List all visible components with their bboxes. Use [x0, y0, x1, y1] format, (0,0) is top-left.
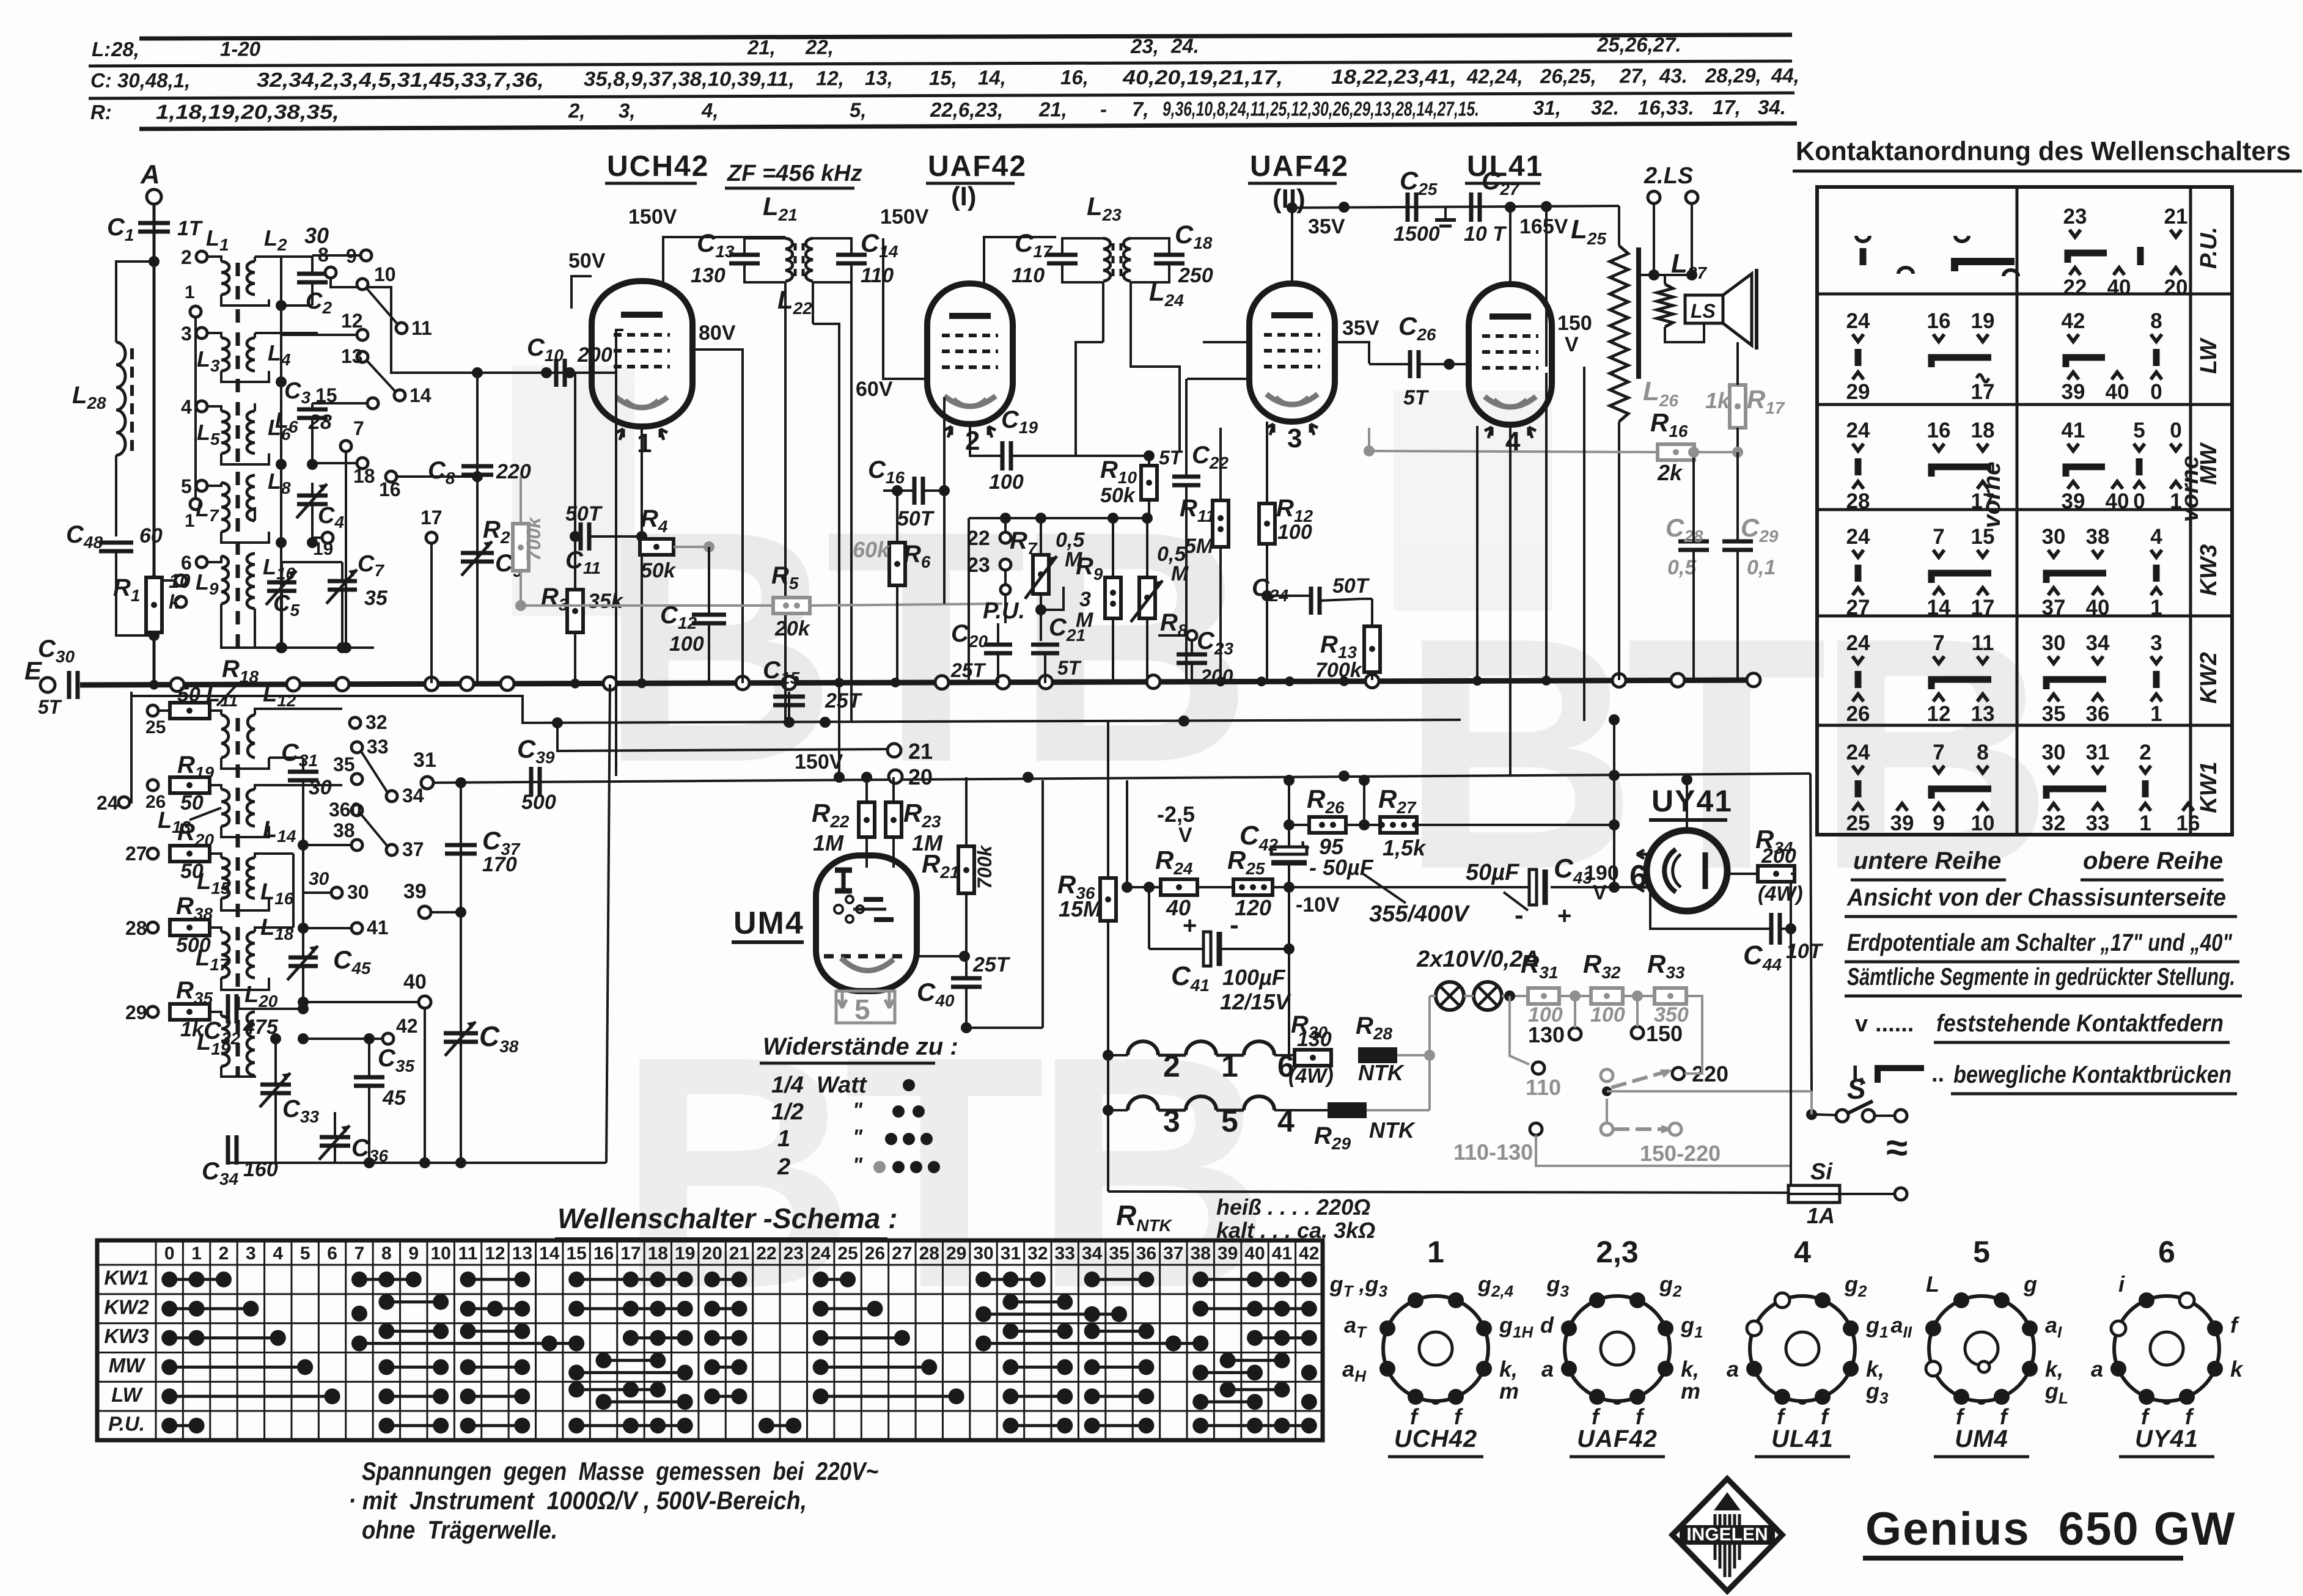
svg-text:11: 11	[458, 1243, 478, 1264]
wire 30	[303, 891, 331, 894]
capacitor C22	[1172, 477, 1200, 485]
resistor R12	[1259, 503, 1275, 544]
wire R17	[1736, 342, 1739, 385]
svg-text:24: 24	[1846, 631, 1870, 655]
svg-text:42: 42	[396, 1015, 418, 1037]
svg-text:17: 17	[1971, 489, 1995, 513]
wellenschalter P.U. contacts 11-13	[460, 1418, 531, 1433]
IF1 core	[794, 243, 797, 276]
wire C37 column	[460, 783, 462, 1163]
resistor R10	[1141, 466, 1157, 500]
wire C36	[334, 1112, 336, 1137]
svg-text:7: 7	[354, 1243, 365, 1264]
svg-text:Spannungen gegen Masse geme: Spannungen gegen Masse gemessen bei 220V…	[362, 1457, 878, 1485]
selector lever down	[1614, 1127, 1666, 1131]
terminal 23	[1000, 559, 1011, 570]
wire L28 to C48	[115, 455, 117, 536]
wire 1a-1b	[194, 317, 197, 499]
resistor R29 NTK	[1328, 1102, 1367, 1118]
svg-text:10T: 10T	[1786, 940, 1824, 963]
svg-text:+: +	[1557, 902, 1571, 929]
heater chain row2	[1128, 1096, 1158, 1110]
wire R36	[1107, 721, 1109, 878]
lamp 1	[1436, 982, 1464, 1010]
coil L18	[247, 932, 255, 978]
capacitor C35	[354, 1077, 384, 1086]
wellenschalter KW3 contacts 7-15	[351, 1336, 584, 1352]
svg-text:35,8,9,37,38,10,39,11,: 35,8,9,37,38,10,39,11,	[584, 68, 795, 90]
capacitor C11	[581, 522, 589, 551]
svg-text:C: 30,48,1,: C: 30,48,1,	[90, 69, 190, 92]
coil L1	[221, 262, 229, 295]
terminal 1b	[190, 499, 201, 510]
coil L15	[221, 858, 229, 898]
resistor R27	[1379, 817, 1418, 833]
svg-text:2: 2	[2139, 741, 2151, 764]
terminal E	[40, 678, 55, 692]
svg-text:39: 39	[1890, 811, 1914, 835]
wire uy41 top	[1686, 780, 1688, 830]
wellenschalter LW contacts 31-33	[1002, 1388, 1073, 1404]
svg-text:700k: 700k	[1315, 659, 1363, 682]
svg-text:KW3: KW3	[2196, 544, 2222, 596]
wellenschalter KW3 contacts 24-27	[813, 1330, 910, 1346]
svg-text:35: 35	[1109, 1243, 1129, 1264]
svg-text:44,: 44,	[1771, 64, 1799, 87]
wellenschalter MW contacts 8-10	[378, 1359, 449, 1375]
svg-text:33: 33	[1055, 1243, 1075, 1264]
coil L16	[247, 858, 255, 898]
svg-text:41: 41	[1272, 1243, 1292, 1264]
svg-text:28,29,: 28,29,	[1705, 64, 1761, 87]
resistor R20	[170, 846, 210, 862]
terminal 3	[196, 328, 207, 339]
svg-text:k,: k,	[2045, 1356, 2063, 1382]
capacitor C23	[1177, 654, 1207, 663]
wire x2109 down	[1288, 887, 1290, 1055]
terminal 31	[421, 777, 433, 789]
svg-text:28: 28	[1846, 489, 1870, 513]
svg-text:19: 19	[1971, 309, 1995, 333]
resistor R13	[1364, 626, 1380, 672]
tube UM4	[816, 855, 917, 991]
capacitor C15	[773, 697, 805, 705]
svg-text:ZF =456 kHz: ZF =456 kHz	[727, 161, 862, 186]
svg-text:39: 39	[2062, 489, 2085, 513]
svg-text:UCH42: UCH42	[607, 150, 709, 183]
svg-text:Genius 650 GW: Genius 650 GW	[1865, 1503, 2236, 1555]
wellenschalter KW3 contacts 40-42	[1247, 1330, 1317, 1346]
svg-text:29: 29	[1846, 380, 1870, 404]
svg-text:14: 14	[539, 1243, 560, 1264]
wire 10-11	[367, 288, 397, 324]
wire uaf1 frame	[883, 238, 927, 379]
wellenschalter LW contacts 34-36	[1084, 1388, 1155, 1404]
svg-text:50T: 50T	[565, 502, 603, 525]
coil L6	[247, 411, 255, 453]
svg-text:UAF42: UAF42	[1250, 150, 1349, 183]
terminal 17	[426, 532, 437, 543]
terminal 19	[322, 532, 333, 543]
wellenschalter MW contacts 39-41	[1220, 1352, 1290, 1368]
wire R26 R27	[1289, 824, 1309, 826]
svg-text:10: 10	[374, 263, 396, 285]
wire um4 eb	[966, 1027, 1043, 1029]
top table rule 1	[139, 35, 1792, 38]
svg-text:17: 17	[421, 507, 443, 529]
contact KW3 left	[1846, 525, 1870, 620]
svg-text:10 T: 10 T	[1464, 222, 1507, 246]
speaker LS	[1685, 269, 1757, 350]
pointer 355	[1363, 874, 1406, 903]
wire R9	[1112, 518, 1114, 577]
wire bottom coil rail	[228, 1162, 606, 1164]
contact KW2 left	[1846, 631, 1870, 726]
svg-text:ohne Trägerwelle.: ohne Trägerwelle.	[362, 1515, 557, 1544]
wire C33	[274, 1039, 277, 1085]
svg-text:NTK: NTK	[1358, 1060, 1405, 1085]
terminal 2.LS a	[1648, 191, 1660, 203]
wire x941 down	[574, 373, 576, 536]
wire 22 23	[1004, 524, 1007, 532]
INGELEN logo diamond	[1672, 1479, 1782, 1591]
wellenschalter MW contacts 38-40	[1192, 1364, 1263, 1380]
E bus wire	[80, 680, 1759, 685]
terminal 2	[196, 251, 207, 262]
wire 8 down	[331, 278, 391, 342]
svg-text:1-20: 1-20	[220, 37, 261, 60]
wire C26	[1369, 363, 1409, 365]
svg-text:0,1: 0,1	[1747, 556, 1776, 579]
svg-text:33: 33	[367, 736, 389, 758]
svg-text:18: 18	[648, 1243, 668, 1264]
svg-text:-: -	[1515, 900, 1524, 930]
svg-text:150: 150	[1646, 1021, 1683, 1046]
heater chain row1	[1128, 1041, 1158, 1055]
svg-text:150V: 150V	[628, 205, 677, 229]
svg-text:31,: 31,	[1533, 97, 1561, 119]
capacitor C38 variable	[444, 1022, 478, 1056]
wellenschalter KW3 contacts 8-10	[378, 1323, 449, 1339]
svg-text:16: 16	[379, 478, 401, 500]
wire uch down1	[641, 426, 643, 536]
resistor R22	[859, 802, 875, 837]
svg-text:A: A	[140, 159, 160, 189]
capacitor C16	[914, 477, 923, 505]
wire x1844	[1126, 780, 1128, 887]
svg-text:16: 16	[1927, 309, 1951, 333]
UY41 arrows	[1637, 850, 1650, 858]
wellenschalter KW2 contacts 8-10	[378, 1294, 449, 1310]
svg-text:2: 2	[965, 426, 980, 456]
svg-text:40: 40	[2086, 596, 2110, 620]
terminal 36	[351, 805, 362, 816]
svg-text:27: 27	[892, 1243, 912, 1264]
svg-text:9: 9	[1933, 811, 1944, 835]
R18 pointer	[217, 683, 238, 706]
terminal pair x296	[175, 575, 186, 586]
wire c10-tube	[566, 372, 616, 374]
wire rail to switch	[1810, 774, 1812, 1091]
wire C34	[237, 1138, 238, 1150]
svg-text:32.: 32.	[1591, 97, 1619, 119]
svg-text:3: 3	[246, 1243, 256, 1264]
resistor R31	[1528, 988, 1559, 1004]
svg-text:k,: k,	[1681, 1356, 1699, 1382]
svg-text:4: 4	[2150, 525, 2162, 549]
wellenschalter KW2 contacts 0-3	[161, 1301, 259, 1317]
svg-text:42: 42	[2062, 309, 2085, 333]
svg-text:......: ......	[1875, 1011, 1914, 1037]
wellenschalter LW contacts 15-18	[568, 1382, 666, 1397]
wire C28	[1692, 452, 1695, 541]
svg-text:21,: 21,	[747, 36, 776, 59]
svg-text:50k: 50k	[1100, 484, 1136, 507]
svg-text:15: 15	[1971, 525, 1995, 549]
svg-text:38: 38	[2086, 525, 2110, 549]
svg-text:4: 4	[181, 396, 192, 418]
svg-text:Kontaktanordnung des Wellensch: Kontaktanordnung des Wellenschalters	[1796, 136, 2291, 166]
svg-text:36: 36	[2086, 702, 2110, 726]
svg-text:30: 30	[309, 869, 329, 889]
svg-text:UL41: UL41	[1771, 1426, 1834, 1452]
E bus junctions	[171, 673, 1760, 692]
wire L15 top	[210, 854, 221, 858]
svg-text:30: 30	[2042, 525, 2066, 549]
lamp 2	[1474, 982, 1502, 1010]
svg-text:": "	[853, 1099, 863, 1122]
contact MW left	[1846, 419, 1870, 513]
resistor R33	[1655, 988, 1686, 1004]
resistor R26	[1309, 817, 1346, 833]
svg-text:26: 26	[1846, 702, 1870, 726]
wire C45	[302, 813, 304, 957]
wire A down	[153, 204, 156, 683]
svg-text:35: 35	[333, 753, 355, 775]
svg-text:28,: 28,	[111, 38, 139, 60]
wire bottom rail	[1108, 1192, 1788, 1193]
wire R16	[1369, 451, 1658, 452]
terminal 37	[386, 844, 397, 855]
svg-text:g: g	[2023, 1272, 2037, 1297]
terminal 33	[351, 742, 362, 753]
terminal 16	[386, 471, 397, 482]
svg-text:11: 11	[411, 317, 432, 339]
terminal 7	[340, 441, 351, 452]
svg-text:16,33.: 16,33.	[1638, 96, 1694, 119]
svg-text:6: 6	[327, 1243, 337, 1264]
svg-text:21: 21	[2164, 205, 2188, 229]
svg-text:m: m	[1681, 1378, 1700, 1404]
wellenschalter KW3 contacts 31-33	[1002, 1323, 1073, 1339]
wire x1215 down	[741, 379, 744, 683]
PU box top	[969, 517, 1151, 519]
svg-text:-: -	[1100, 98, 1107, 120]
wire C44	[1650, 887, 1770, 929]
svg-text:i: i	[2118, 1272, 2125, 1297]
terminal 27	[147, 848, 158, 859]
svg-text:30: 30	[2042, 631, 2066, 655]
wellenschalter KW3 contacts 0-4	[161, 1330, 286, 1346]
capacitor C26	[1410, 350, 1419, 378]
wellenschalter KW2 contacts 15-19	[568, 1301, 693, 1317]
svg-text:19: 19	[313, 539, 333, 559]
svg-text:20: 20	[908, 764, 933, 789]
wire C5 C7	[281, 562, 283, 582]
terminal 30	[331, 887, 342, 898]
svg-text:4,: 4,	[701, 99, 719, 122]
contact LW left	[1846, 309, 1870, 404]
coil L14	[247, 789, 255, 826]
svg-text:Sämtliche Segmente in gedrückt: Sämtliche Segmente in gedrückter Stellun…	[1847, 964, 2235, 990]
svg-text:110: 110	[861, 264, 894, 287]
ground symbol	[1444, 207, 1447, 220]
svg-text:37: 37	[2042, 596, 2066, 620]
wire ebus drop x1291	[788, 692, 790, 722]
svg-text:5: 5	[181, 475, 192, 497]
svg-text:≈: ≈	[1886, 1126, 1908, 1170]
resistor R16	[1658, 444, 1694, 460]
wellenschalter LW contacts 0-6	[161, 1388, 340, 1404]
wellenschalter KW3 contacts 34-36	[1084, 1323, 1155, 1339]
capacitor C42 electrolytic	[1271, 847, 1307, 863]
svg-text:3: 3	[1079, 588, 1091, 611]
capacitor C44	[1771, 913, 1780, 945]
terminal 110	[1532, 1062, 1545, 1074]
wire C29	[1736, 452, 1739, 541]
wire C23	[1191, 640, 1193, 654]
svg-text:12: 12	[341, 310, 363, 332]
svg-text:28: 28	[125, 917, 147, 939]
svg-text:20k: 20k	[774, 617, 811, 640]
wellenschalter MW contacts 20-21	[704, 1359, 747, 1375]
IF2 core	[1112, 243, 1115, 276]
svg-text:30: 30	[973, 1243, 993, 1264]
wellenschalter KW2 contacts 11-13	[460, 1301, 531, 1317]
wire x1545	[943, 397, 946, 604]
svg-text:50µF: 50µF	[1466, 860, 1520, 885]
terminal 32	[350, 717, 361, 728]
svg-text:18: 18	[1971, 419, 1995, 442]
svg-text:35V: 35V	[1342, 317, 1379, 340]
wire uaf1 anode	[984, 237, 1056, 284]
svg-text:Si: Si	[1810, 1159, 1833, 1185]
selector low contacts	[1601, 1123, 1613, 1135]
svg-text:14,: 14,	[978, 67, 1006, 89]
svg-text:k: k	[169, 591, 181, 613]
svg-text:12/15V: 12/15V	[1220, 989, 1291, 1014]
svg-text:30: 30	[347, 881, 369, 903]
svg-text:1: 1	[637, 428, 652, 458]
svg-text:1: 1	[2150, 702, 2162, 726]
wire R13	[1362, 598, 1372, 600]
svg-text:32,34,2,3,4,5,31,45,33,7,36,: 32,34,2,3,4,5,31,45,33,7,36,	[257, 68, 544, 91]
svg-text:16: 16	[593, 1243, 614, 1264]
capacitor C25	[1408, 192, 1416, 222]
terminal 13	[357, 351, 368, 362]
svg-text:40: 40	[2107, 276, 2131, 299]
wire C42	[1288, 825, 1290, 848]
svg-text:60k: 60k	[853, 537, 891, 562]
wire x2232 up	[1363, 780, 1365, 825]
wire stub 296	[154, 579, 175, 582]
wire 41	[303, 927, 351, 929]
svg-text:KW2: KW2	[2196, 652, 2222, 703]
wire C24	[1267, 595, 1310, 597]
svg-text:19: 19	[675, 1243, 695, 1264]
svg-text:2,: 2,	[568, 100, 586, 122]
capacitor C24	[1311, 587, 1320, 615]
resistor R21	[958, 846, 974, 893]
capacitor C17	[1047, 255, 1078, 263]
terminal 6	[196, 557, 207, 568]
svg-text:25: 25	[837, 1243, 858, 1264]
svg-text:9: 9	[408, 1243, 419, 1264]
resistor R32	[1591, 988, 1623, 1004]
svg-text:0: 0	[2133, 489, 2145, 513]
svg-text:34: 34	[402, 785, 424, 807]
wellenschalter MW contacts 31-33	[1002, 1359, 1073, 1375]
svg-text:a: a	[1541, 1356, 1554, 1382]
svg-text:1500: 1500	[1394, 222, 1440, 246]
svg-text:P.U.: P.U.	[983, 598, 1025, 624]
wellenschalter row labels	[104, 1267, 149, 1435]
svg-text:34.: 34.	[1758, 96, 1786, 119]
wellenschalter KW1 contacts 20-21	[704, 1272, 747, 1287]
svg-text:3: 3	[1287, 423, 1302, 453]
svg-text:5: 5	[1221, 1104, 1238, 1138]
svg-text:22,: 22,	[805, 35, 834, 58]
terminal 2.LS b	[1686, 191, 1698, 203]
svg-text:700k: 700k	[523, 516, 545, 561]
wire LS terms	[1653, 203, 1655, 275]
contact LW right	[2062, 309, 2129, 404]
svg-text:26: 26	[865, 1243, 885, 1264]
svg-text:UCH42: UCH42	[1394, 1426, 1477, 1452]
wire L11 top	[210, 711, 221, 715]
wire uch down2	[641, 536, 643, 683]
svg-text:k,: k,	[1499, 1356, 1518, 1382]
svg-text:M: M	[1076, 609, 1093, 632]
svg-text:28: 28	[919, 1243, 939, 1264]
wellenschalter P.U. contacts 22-23	[758, 1418, 801, 1433]
capacitor C9 variable	[461, 541, 494, 576]
wire R10	[1148, 456, 1150, 466]
svg-text:40: 40	[403, 970, 427, 994]
selector pivot	[1601, 1069, 1613, 1082]
capacitor C39	[531, 767, 540, 796]
IF2 wires	[1062, 238, 1180, 456]
capacitor C20	[984, 645, 1012, 653]
top table rule 4	[139, 123, 1797, 129]
wire R5	[521, 604, 773, 607]
svg-text:UL41: UL41	[1467, 150, 1543, 183]
coil L12	[248, 715, 255, 758]
wellenschalter P.U. contacts 34-36	[1084, 1418, 1155, 1433]
wellenschalter MW contacts 11-13	[460, 1359, 531, 1375]
svg-text:k,: k,	[1866, 1356, 1884, 1382]
wire heater row1	[1108, 1054, 1128, 1056]
resistor R6	[889, 543, 905, 585]
svg-text:5,: 5,	[850, 98, 867, 121]
svg-text:150V: 150V	[795, 750, 843, 774]
svg-text:39: 39	[403, 880, 427, 903]
pointer 50uf	[1504, 892, 1528, 910]
svg-text:d: d	[1540, 1312, 1554, 1338]
svg-text:50T: 50T	[897, 507, 935, 530]
svg-text:22: 22	[756, 1243, 776, 1264]
resistor R34	[1758, 866, 1794, 882]
